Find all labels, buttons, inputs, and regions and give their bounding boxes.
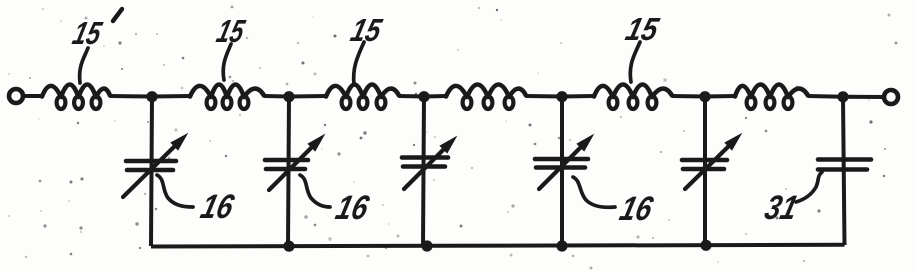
wire: L4 to node D bbox=[526, 94, 562, 99]
leader: 31 to C6 bbox=[796, 172, 822, 202]
wire: node E to L6 bbox=[705, 94, 735, 99]
value label 15 for L3 bbox=[347, 12, 386, 47]
variable capacitor 16 (C5) bbox=[682, 134, 741, 189]
wire: branch C6 vertical bbox=[843, 97, 845, 245]
inductor 15 (L2) bbox=[190, 85, 264, 110]
node F junction dot bbox=[837, 91, 848, 102]
wire: node B to L3 bbox=[289, 94, 326, 99]
wire: L6 to node F bbox=[808, 94, 843, 99]
variable capacitor 16 (C3) bbox=[402, 137, 456, 189]
bus junction dot at C3 bbox=[421, 240, 432, 251]
value label 31 for C6 bbox=[761, 189, 801, 226]
leader: 16 to C2 bbox=[300, 175, 330, 207]
value label 16 for C4 bbox=[616, 190, 657, 227]
variable capacitor 16 (C2) bbox=[265, 135, 324, 190]
bus junction dot at C5 bbox=[700, 240, 711, 251]
wire: node D to L5 bbox=[562, 94, 594, 99]
variable capacitor 16 (C1) bbox=[123, 134, 187, 197]
leader: 16 to C1 bbox=[157, 175, 193, 207]
variable capacitor 16 (C4) bbox=[535, 135, 593, 189]
inductor L4 (unlabeled) bbox=[446, 85, 526, 110]
leader: 16 to C4 bbox=[573, 177, 615, 207]
value label 16 for C2 bbox=[332, 189, 373, 226]
bottom bus wire bbox=[151, 245, 845, 247]
inductor 15' (L1) bbox=[42, 85, 110, 110]
value label 15 for L5 bbox=[622, 11, 663, 46]
leader: 15 to L5 bbox=[630, 42, 640, 82]
wire: branch C2 vertical bbox=[288, 97, 289, 246]
wire: L5 to node E bbox=[672, 94, 705, 99]
inductor 15 (L3) bbox=[326, 85, 399, 110]
node B junction dot bbox=[283, 91, 294, 102]
left input terminal bbox=[9, 89, 23, 103]
right output terminal bbox=[884, 90, 898, 104]
leader: 15' to L1 bbox=[80, 48, 88, 83]
wire: L3 to node C bbox=[399, 94, 424, 99]
wire: L2 to node B bbox=[264, 94, 289, 99]
node E junction dot bbox=[699, 91, 710, 102]
value label 16 for C1 bbox=[197, 188, 238, 225]
wire: terminal to L1 bbox=[23, 94, 42, 98]
capacitor 31 (C6) bbox=[818, 160, 871, 170]
wire: branch C5 vertical bbox=[703, 97, 707, 246]
wire: branch C4 vertical bbox=[560, 97, 564, 246]
prime mark on 15' bbox=[113, 9, 122, 21]
wire: node A to L2 bbox=[152, 94, 190, 99]
inductor L6 (unlabeled) bbox=[735, 85, 808, 110]
wire: node F to output terminal bbox=[843, 95, 884, 99]
bus junction dot at C4 bbox=[556, 240, 567, 251]
wire: branch C1 vertical bbox=[151, 97, 152, 246]
value label 15 for L2 bbox=[213, 13, 249, 48]
inductor 15 (L5) bbox=[594, 85, 672, 110]
leader: 15 to L3 bbox=[354, 42, 364, 84]
bus junction dot at C2 bbox=[283, 241, 294, 252]
node A junction dot bbox=[146, 91, 157, 102]
leader: 15 to L2 bbox=[223, 44, 231, 80]
wire: L1 to node A bbox=[110, 94, 152, 99]
wire: branch C3 vertical bbox=[423, 97, 424, 246]
value label 15' for L1 bbox=[69, 15, 106, 50]
wire: node C to L4 bbox=[424, 94, 446, 99]
node D junction dot bbox=[556, 91, 567, 102]
node C junction dot bbox=[418, 91, 429, 102]
